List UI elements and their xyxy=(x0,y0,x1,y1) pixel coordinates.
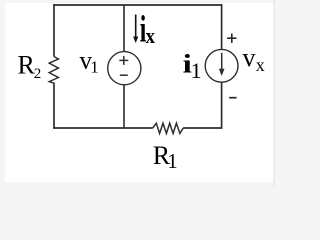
svg-text:x: x xyxy=(146,25,156,49)
plus sign inside V1 xyxy=(119,56,128,65)
resistor R1 xyxy=(153,123,183,133)
wire bottom left segment xyxy=(53,127,153,129)
wire left (lower, below R2) xyxy=(53,83,55,129)
svg-text:x: x xyxy=(256,55,265,75)
svg-text:R: R xyxy=(18,51,36,80)
label vx xyxy=(243,43,265,75)
plus sign for Vx (top right) xyxy=(227,34,236,43)
faint page divider line at right xyxy=(273,0,275,186)
label i1 xyxy=(183,50,202,83)
current source I1 circle xyxy=(205,49,238,82)
voltage source V1 circle xyxy=(108,52,141,85)
wire middle (lower, below v1 source) xyxy=(123,85,125,128)
wire middle (upper, above v1 source) xyxy=(123,5,125,52)
wire left (upper, above R2) xyxy=(53,4,55,56)
svg-text:1: 1 xyxy=(191,58,202,83)
minus sign inside V1 xyxy=(120,74,128,76)
wire top xyxy=(53,4,222,6)
resistor R2 xyxy=(49,57,58,84)
wire right (upper, above i1 source) xyxy=(221,4,223,49)
label ix xyxy=(140,8,156,50)
ix current arrow (downward) xyxy=(135,15,137,40)
wire bottom right segment xyxy=(183,127,222,129)
minus sign for Vx (bottom right) xyxy=(229,97,236,99)
label R1 xyxy=(153,141,178,173)
svg-text:2: 2 xyxy=(34,66,42,82)
label R2 xyxy=(18,51,42,82)
svg-text:1: 1 xyxy=(167,149,178,173)
label v1 xyxy=(80,47,99,76)
svg-text:1: 1 xyxy=(90,58,99,77)
svg-text:v: v xyxy=(243,43,256,72)
arrow inside I1 (downward) xyxy=(221,53,223,72)
wire right (lower, below i1 source) xyxy=(221,82,223,128)
